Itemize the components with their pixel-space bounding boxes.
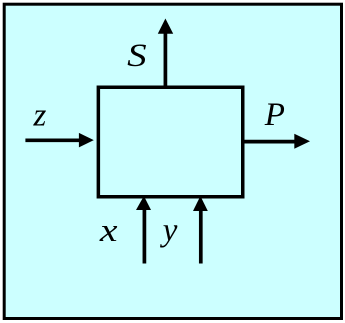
wire y arrow shaft <box>199 211 203 264</box>
svg-text:z: z <box>33 98 47 134</box>
node x arrowhead <box>136 196 151 210</box>
svg-text:P: P <box>264 97 285 133</box>
wire x arrow shaft <box>143 209 147 264</box>
node P arrowhead <box>294 134 310 149</box>
node S arrowhead <box>158 19 173 34</box>
wire S arrow shaft <box>164 33 168 88</box>
wire P arrow shaft <box>243 140 295 144</box>
wire z arrow shaft <box>25 138 80 142</box>
svg-text:y: y <box>160 213 178 249</box>
svg-text:S: S <box>127 38 147 74</box>
process box <box>98 87 242 197</box>
node z arrowhead <box>79 133 94 148</box>
svg-text:x: x <box>99 213 118 249</box>
node y arrowhead <box>193 196 208 211</box>
